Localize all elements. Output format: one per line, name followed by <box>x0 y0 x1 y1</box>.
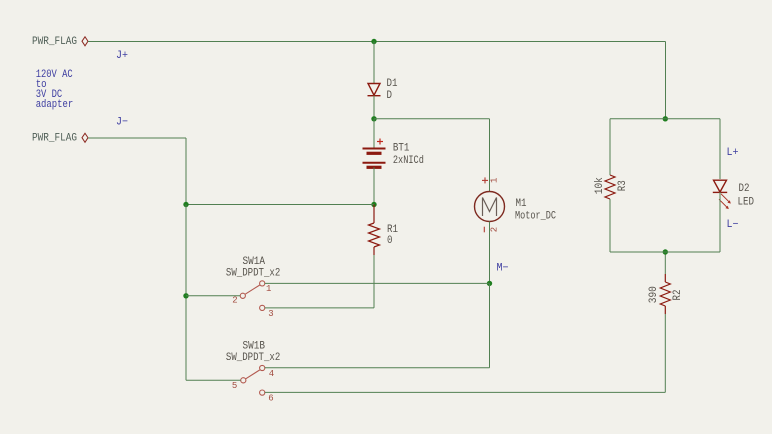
label SW1B value SW_DPDT_x2 <box>226 352 280 364</box>
net label L- <box>727 219 739 231</box>
motor M1 minus pin name <box>483 227 485 233</box>
svg-text:L+: L+ <box>727 147 739 159</box>
svg-text:D: D <box>387 90 393 102</box>
label R2 reference <box>672 290 684 301</box>
junction loop top <box>663 116 668 121</box>
power flag PF1 label PWR_FLAG <box>32 36 77 48</box>
svg-text:BT1: BT1 <box>393 142 410 154</box>
wire SW1B common stub <box>186 379 241 381</box>
svg-text:0: 0 <box>387 235 393 247</box>
label SW1B reference <box>243 340 266 352</box>
wire mid horizontal <box>186 204 374 206</box>
SW1B pin number 4 <box>269 369 274 379</box>
motor M1 pin number 2 <box>489 227 499 232</box>
label R2 value 390 <box>648 286 660 303</box>
wire D1 cathode to junction <box>373 96 375 119</box>
wire motor bottom vertical <box>489 222 491 284</box>
svg-text:SW_DPDT_x2: SW_DPDT_x2 <box>226 352 280 364</box>
wire battery bottom to junction <box>373 167 375 204</box>
wire loop top horizontal <box>610 118 720 120</box>
label SW1A reference <box>243 256 266 268</box>
power flag PF2 label PWR_FLAG <box>32 132 77 144</box>
svg-text:J−: J− <box>116 117 128 129</box>
label SW1A value SW_DPDT_x2 <box>226 267 280 279</box>
battery BT1 plus polarity mark <box>377 139 383 145</box>
switch SW1A <box>240 281 265 311</box>
svg-text:2xNICd: 2xNICd <box>393 155 424 167</box>
svg-text:SW1A: SW1A <box>243 256 266 268</box>
label BT1 value 2xNICd <box>393 155 424 167</box>
SW1A pin number 2 <box>232 296 237 306</box>
junction M- node <box>487 281 492 286</box>
wire M- down to pin4 level <box>489 283 491 367</box>
svg-text:LED: LED <box>738 196 755 208</box>
wire SW1A common stub <box>186 295 240 297</box>
label M1 reference <box>516 198 527 210</box>
label D1 value D <box>387 90 393 102</box>
svg-text:M1: M1 <box>516 198 527 210</box>
resistor R1 <box>369 205 380 256</box>
svg-text:R3: R3 <box>617 180 629 191</box>
text note adapter description <box>36 69 73 111</box>
wire motor top vertical <box>489 119 491 192</box>
switch SW1B <box>241 365 265 395</box>
svg-text:2: 2 <box>489 227 499 232</box>
motor M1 plus pin name <box>482 177 488 183</box>
svg-text:390: 390 <box>648 286 660 303</box>
wire loop right bottom segment <box>719 192 721 252</box>
svg-text:PWR_FLAG: PWR_FLAG <box>32 36 77 48</box>
SW1B pin number 5 <box>232 381 237 391</box>
svg-text:SW1B: SW1B <box>243 340 266 352</box>
svg-text:4: 4 <box>269 369 274 379</box>
junction at battery bottom node <box>371 202 376 207</box>
wire R2 top to loop bottom <box>664 252 666 274</box>
wire top J+ horizontal <box>88 41 666 43</box>
wire junction to battery top <box>373 119 375 149</box>
motor M1 pin number 1 <box>489 178 499 183</box>
wire D1 anode stub <box>373 42 375 85</box>
label R3 value 10k <box>594 177 606 194</box>
svg-text:Motor_DC: Motor_DC <box>515 211 556 223</box>
junction below D1 <box>371 116 376 121</box>
svg-text:SW_DPDT_x2: SW_DPDT_x2 <box>226 267 280 279</box>
net label M- <box>497 263 509 275</box>
SW1A pin number 3 <box>268 309 273 319</box>
wire top-right vertical <box>665 42 667 119</box>
junction left mid node <box>183 202 188 207</box>
label R1 reference <box>387 224 398 236</box>
diode D1 <box>368 84 381 96</box>
svg-text:L−: L− <box>727 219 739 231</box>
net label J+ <box>116 50 128 62</box>
label M1 value Motor_DC <box>515 211 556 223</box>
resistor R2 <box>660 274 670 314</box>
svg-text:M−: M− <box>497 263 509 275</box>
svg-text:10k: 10k <box>594 177 606 194</box>
wire SW1B pin4 horizontal <box>265 367 490 369</box>
junction loop bottom <box>663 249 668 254</box>
LED D2 <box>713 180 731 209</box>
wire loop left top segment <box>609 119 611 175</box>
wire J- vertical down <box>185 138 187 205</box>
label R1 value 0 <box>387 235 393 247</box>
svg-text:D2: D2 <box>739 183 750 195</box>
svg-text:J+: J+ <box>116 50 128 62</box>
svg-text:1: 1 <box>489 178 499 183</box>
SW1B pin number 6 <box>268 393 273 403</box>
motor M1 <box>475 192 505 222</box>
junction on J+ above D1 <box>371 39 376 44</box>
wire SW1B pin6 bottom horizontal <box>265 391 666 393</box>
resistor R3 <box>605 175 615 199</box>
svg-text:6: 6 <box>268 393 273 403</box>
svg-text:D1: D1 <box>387 78 398 90</box>
wire J- horizontal from flag <box>88 137 186 139</box>
net label J- <box>116 117 128 129</box>
junction SW1A common tap <box>183 293 188 298</box>
wire SW1A pin3 to R1 <box>265 307 374 309</box>
svg-text:5: 5 <box>232 381 237 391</box>
label R3 reference <box>617 180 629 191</box>
svg-text:1: 1 <box>266 284 271 294</box>
svg-text:adapter: adapter <box>36 99 73 111</box>
wire bottom right vertical to R2 <box>664 314 666 392</box>
label BT1 reference <box>393 142 410 154</box>
wire R1 bottom vertical <box>373 255 375 308</box>
wire branch to motor horizontal <box>374 118 490 120</box>
wire loop right top segment <box>719 119 721 179</box>
wire loop bottom horizontal <box>610 251 720 253</box>
wire loop left bottom segment <box>609 199 611 252</box>
svg-text:2: 2 <box>232 296 237 306</box>
svg-text:R2: R2 <box>672 290 684 301</box>
power flag PF1 symbol <box>82 37 88 46</box>
wire SW1A pin1 to M- <box>265 282 490 284</box>
svg-text:PWR_FLAG: PWR_FLAG <box>32 132 77 144</box>
wire left vertical down to switches <box>185 205 187 381</box>
label D1 reference <box>387 78 398 90</box>
battery BT1 <box>363 149 386 168</box>
label D2 value LED <box>738 196 755 208</box>
svg-text:3: 3 <box>268 309 273 319</box>
power flag PF2 symbol <box>82 133 88 142</box>
label D2 reference <box>739 183 750 195</box>
net label L+ <box>727 147 739 159</box>
SW1A pin number 1 <box>266 284 271 294</box>
